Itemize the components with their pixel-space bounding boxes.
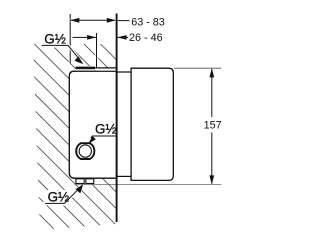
front port G1/2 inner circle [79,145,91,157]
svg-text:157: 157 [204,120,222,132]
svg-text:G½: G½ [48,190,70,205]
dimension 157 [204,68,222,184]
label mask G1/2 mid [92,123,118,138]
neck top line [117,71,131,73]
top connection stub G1/2 [76,66,96,71]
svg-text:G½: G½ [44,32,66,47]
svg-text:G½: G½ [95,121,117,136]
shoulder line [95,68,117,71]
wall face line [116,14,118,223]
extension line body left edge [69,14,72,63]
label mask G1/2 top [40,31,70,48]
svg-text:26 - 46: 26 - 46 [129,32,163,44]
leader top G1/2 [42,45,84,64]
bottom stub 2 [86,179,94,184]
dimension 26-46 [73,32,163,44]
dimension 63-83 [70,16,165,28]
leader mid G1/2 [88,136,116,144]
front port G1/2 outer nut outline [76,143,94,159]
extension line stub edge [95,33,98,68]
bottom extension line 157 [75,184,222,186]
label mask G1/2 bottom [44,190,72,206]
leader bottom G1/2 [45,184,83,203]
valve body [69,71,117,178]
bottom stub 1 [76,179,84,184]
neck bottom line [117,175,131,177]
svg-text:63 - 83: 63 - 83 [131,16,165,28]
top extension line 157 [174,67,221,69]
outer trim part [131,68,173,180]
